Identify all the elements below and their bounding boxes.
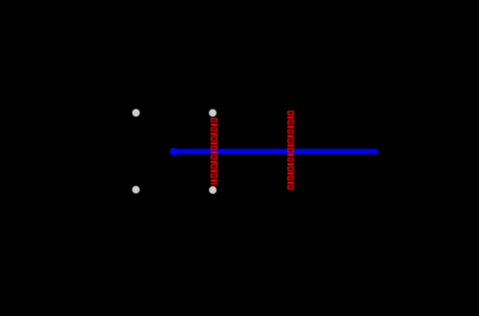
node dot bottom-right bbox=[210, 187, 217, 194]
node dot top-left bbox=[133, 110, 140, 117]
blue ray (horizontal axis line) bbox=[172, 149, 379, 154]
red crossed-dash plane 2 (right element) bbox=[287, 111, 294, 190]
blue ray start marker bbox=[170, 148, 178, 156]
node dot bottom-left bbox=[133, 186, 140, 193]
node dot top-right bbox=[209, 110, 216, 117]
red crossed-dash plane 1 (left element) bbox=[211, 118, 218, 185]
